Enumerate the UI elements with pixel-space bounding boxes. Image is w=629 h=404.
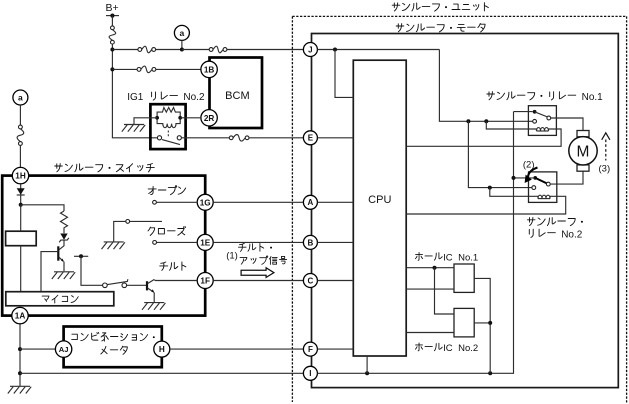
wire J to CPU bbox=[317, 48, 439, 98]
relay IG1 mechanical link (dashed) bbox=[167, 131, 169, 137]
wire 1F to C bbox=[213, 280, 303, 282]
wire 1G to A bbox=[213, 201, 303, 203]
wire fuse to 1H bbox=[19, 145, 21, 167]
svg-text:A: A bbox=[308, 198, 314, 207]
pin 1G bbox=[197, 194, 213, 210]
svg-text:2R: 2R bbox=[204, 114, 215, 123]
pin C bbox=[303, 274, 317, 288]
sunroof switch box bbox=[2, 176, 205, 316]
wire open contact to 1G bbox=[156, 201, 197, 203]
pin 1E bbox=[197, 234, 213, 250]
motor M bbox=[569, 131, 597, 172]
svg-text:No.2: No.2 bbox=[183, 92, 205, 103]
wire branch to relay2 bbox=[468, 121, 532, 189]
wire I bus bbox=[317, 112, 513, 376]
wire CPU to hall1 (low) bbox=[406, 288, 454, 290]
relay No.2 box bbox=[529, 172, 557, 203]
transistor Q2 (NPN) bbox=[147, 280, 154, 303]
pin 1H bbox=[12, 167, 28, 183]
junction B+/row1 bbox=[110, 48, 114, 52]
label: sunroof relay No.2 bbox=[527, 217, 583, 240]
zener diode D2 bbox=[59, 234, 69, 243]
relay No.1 coil bbox=[528, 128, 548, 131]
common lever (grounded) bbox=[126, 220, 162, 224]
label: IG1 relay No.2 bbox=[127, 92, 205, 103]
wire node to tilt switch bbox=[81, 256, 103, 285]
junction a/row1 bbox=[180, 48, 184, 52]
svg-text:a: a bbox=[180, 28, 185, 38]
pin 1A bbox=[12, 307, 28, 323]
svg-text:M: M bbox=[577, 143, 590, 160]
label: hall IC No.2 bbox=[415, 343, 478, 354]
pin I bbox=[303, 366, 317, 380]
combination meter box bbox=[64, 327, 162, 368]
wire C to CPU bbox=[317, 280, 353, 282]
tilt switch contacts bbox=[103, 279, 128, 287]
wire Q1 base to microcomputer bbox=[41, 252, 58, 292]
fuse row E bbox=[229, 135, 249, 142]
label: sunroof unit bbox=[392, 3, 488, 11]
wire relay2 NO to motor bbox=[550, 171, 583, 184]
annotation (3) direction arrow bbox=[599, 133, 611, 175]
svg-text:CPU: CPU bbox=[368, 194, 391, 206]
svg-text:a: a bbox=[18, 93, 23, 103]
svg-text:BCM: BCM bbox=[225, 90, 249, 102]
relay No.1 contacts bbox=[533, 110, 551, 123]
ground (IG1 relay) bbox=[122, 125, 145, 132]
wire 1A down to ground bbox=[19, 324, 21, 387]
sunroof motor box bbox=[312, 34, 619, 388]
svg-text:C: C bbox=[308, 276, 314, 285]
wire close contact to 1E bbox=[157, 241, 198, 243]
label: hall IC No.1 bbox=[415, 252, 478, 263]
relay IG1 contacts bbox=[157, 136, 181, 145]
svg-text:AJ: AJ bbox=[59, 345, 69, 354]
wire branch to relay1 coil bbox=[486, 121, 528, 129]
component block (in-line) bbox=[6, 231, 37, 246]
battery B+ terminal bbox=[106, 2, 120, 18]
label: tilt bbox=[160, 262, 186, 270]
svg-text:No.2: No.2 bbox=[458, 343, 478, 354]
svg-text:(1): (1) bbox=[226, 250, 238, 261]
wire fuse to junction a bbox=[156, 49, 182, 51]
svg-text:IC: IC bbox=[443, 343, 453, 354]
svg-text:1H: 1H bbox=[15, 172, 26, 181]
wire branch to relay2 coil bbox=[490, 188, 529, 197]
relay No.1 box bbox=[528, 106, 556, 136]
wire relay contact to fuse bbox=[181, 137, 229, 139]
wire relay to ground bbox=[134, 118, 157, 125]
fuse row2 bbox=[137, 66, 156, 73]
connector a (left) bbox=[13, 90, 28, 105]
fuse row1-2 bbox=[209, 46, 227, 53]
svg-text:B+: B+ bbox=[106, 2, 119, 14]
wire J bus down to relays bbox=[439, 50, 532, 124]
wire row1 to fuse2 bbox=[182, 49, 209, 51]
fuse row1 bbox=[138, 46, 156, 53]
wire CPU bottom to I bus bbox=[366, 356, 368, 373]
wire B+ bus down to relay contact bbox=[112, 44, 157, 138]
junction node bbox=[19, 203, 23, 207]
wire hall2 out bbox=[474, 321, 492, 325]
wire E to CPU bbox=[317, 137, 353, 139]
wire lever to ground bbox=[114, 221, 126, 242]
svg-text:H: H bbox=[159, 345, 165, 354]
hall IC No.1 box bbox=[454, 264, 474, 292]
pin B bbox=[303, 235, 317, 249]
open contact bbox=[153, 200, 157, 204]
pin A bbox=[303, 195, 317, 209]
wire hall1 out bbox=[474, 278, 490, 373]
block arrow (tilt-up) bbox=[241, 268, 274, 278]
svg-text:1A: 1A bbox=[15, 312, 26, 321]
wire zener to Q1 collector bbox=[63, 240, 65, 246]
wire row1 to fuse bbox=[112, 49, 137, 51]
annotation (2) operate arrow bbox=[523, 159, 538, 183]
wire ground bus to I bbox=[20, 372, 303, 374]
svg-text:B: B bbox=[308, 238, 314, 247]
pin F bbox=[303, 342, 317, 356]
hall IC No.2 box bbox=[454, 308, 474, 337]
sunroof unit dashed enclosure bbox=[292, 16, 626, 404]
svg-text:1G: 1G bbox=[200, 198, 211, 207]
pin 1B bbox=[201, 61, 217, 77]
wire tilt switch to Q2 base bbox=[127, 284, 147, 286]
svg-text:No.2: No.2 bbox=[561, 229, 583, 240]
pin H bbox=[154, 341, 170, 357]
svg-text:IG1: IG1 bbox=[127, 92, 144, 103]
fuse (left, vertical) bbox=[17, 125, 24, 145]
wire A to CPU bbox=[317, 201, 353, 203]
wire 2R to relay bbox=[180, 117, 201, 119]
svg-text:E: E bbox=[308, 134, 314, 143]
pin 1F bbox=[197, 273, 213, 289]
wire CPU to hall2 (low) bbox=[406, 332, 454, 334]
wire B+ down bbox=[111, 16, 113, 26]
svg-text:J: J bbox=[308, 45, 312, 54]
wire B to CPU bbox=[317, 241, 353, 243]
wire a down bbox=[19, 105, 21, 125]
pin J bbox=[303, 43, 317, 57]
close contact bbox=[153, 241, 157, 245]
CPU box bbox=[353, 60, 406, 356]
svg-text:1E: 1E bbox=[200, 238, 211, 247]
svg-text:(3): (3) bbox=[599, 164, 611, 175]
junction 1A/AJ bbox=[18, 347, 22, 351]
pin 2R bbox=[201, 110, 217, 126]
pin E bbox=[303, 131, 317, 145]
wire 1H down bbox=[20, 184, 22, 205]
wire node through block to microcomputer bbox=[20, 205, 22, 231]
wire fuse to E bbox=[249, 137, 303, 139]
wire to AJ bbox=[20, 348, 55, 350]
svg-text:No.1: No.1 bbox=[582, 92, 604, 103]
wire relay1 NO to motor bbox=[551, 118, 583, 131]
svg-text:No.1: No.1 bbox=[458, 252, 478, 263]
wire row2 to 1B bbox=[156, 68, 201, 70]
connector a (top) bbox=[174, 25, 189, 40]
wire relay2 coil to CPU bbox=[406, 196, 566, 214]
pin AJ bbox=[55, 341, 71, 357]
label: sunroof motor bbox=[396, 24, 485, 32]
label: sunroof switch bbox=[55, 164, 155, 172]
wire row1 to J bbox=[227, 49, 304, 51]
label: (1) tilt-up signal bbox=[226, 243, 286, 264]
wire CPU to hall1 (vcc) bbox=[406, 266, 454, 270]
label: close bbox=[148, 226, 186, 235]
microcomputer box bbox=[6, 292, 114, 306]
relay No.2 contacts (operated) bbox=[532, 176, 550, 190]
label: open bbox=[148, 186, 186, 195]
wire F to CPU bbox=[317, 348, 353, 350]
svg-text:1B: 1B bbox=[204, 65, 215, 74]
wire Q2 collector to 1F bbox=[154, 279, 197, 282]
wire a to row1 bbox=[181, 40, 183, 49]
wire relay1 coil to CPU bbox=[406, 129, 561, 146]
ground (Q2 emitter) bbox=[142, 303, 165, 310]
svg-text:I: I bbox=[309, 369, 311, 378]
fuse (fusible link, vertical) bbox=[109, 26, 116, 44]
BCM box bbox=[210, 58, 263, 129]
tilt feed node bbox=[74, 254, 88, 258]
wire node to resistor branch bbox=[21, 205, 64, 211]
junction 1A/I bbox=[18, 371, 22, 375]
ground (Q1 emitter) bbox=[52, 272, 75, 279]
diode D1 bbox=[17, 188, 25, 195]
relay IG1 No.2 box bbox=[150, 104, 185, 149]
ground (main) bbox=[8, 386, 31, 393]
relay IG1 coil+resistor element bbox=[155, 108, 182, 128]
junction B+/row2 bbox=[110, 67, 114, 71]
ground (switch common) bbox=[102, 242, 125, 249]
label: sunroof relay No.1 bbox=[487, 92, 603, 103]
wire H to F bbox=[170, 348, 304, 350]
transistor Q1 (NPN) bbox=[58, 246, 64, 271]
wire 1E to B bbox=[213, 241, 303, 243]
resistor R1 (zigzag) bbox=[61, 211, 68, 233]
wire relay1 common to I bus bbox=[514, 111, 533, 113]
wire relay2 common to I bus bbox=[512, 176, 534, 180]
svg-text:IC: IC bbox=[443, 252, 453, 263]
relay No.2 coil bbox=[529, 195, 551, 198]
wire branch to hall2 bbox=[435, 268, 455, 314]
svg-text:1F: 1F bbox=[200, 277, 210, 286]
svg-text:F: F bbox=[308, 345, 313, 354]
wire row2 to fuse bbox=[112, 68, 137, 70]
